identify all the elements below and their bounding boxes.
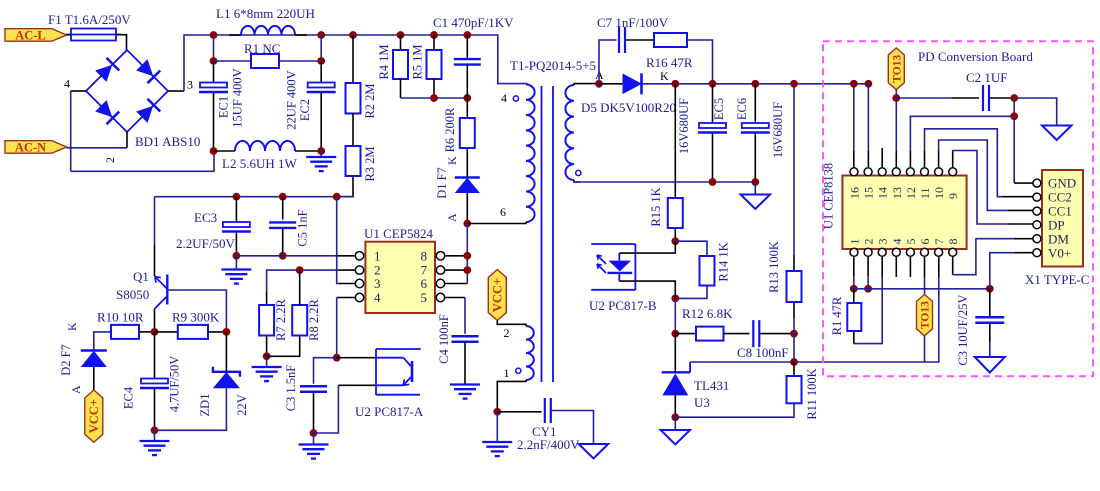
- wire TO13 bottom stub: [924, 336, 926, 362]
- svg-text:TL431: TL431: [694, 378, 729, 393]
- svg-text:R3 2M: R3 2M: [363, 146, 377, 181]
- svg-text:4: 4: [374, 290, 381, 305]
- wire R5 bottom stub: [433, 79, 435, 98]
- svg-text:K: K: [65, 322, 79, 331]
- ground primary at R7 R8: [252, 366, 282, 368]
- svg-text:R6 200R: R6 200R: [443, 107, 457, 152]
- svg-text:AC-N: AC-N: [15, 140, 46, 154]
- junction EC3 ground pin1 rail: [233, 252, 241, 260]
- junction R15 R14 LED: [671, 237, 679, 245]
- svg-text:C8 100nF: C8 100nF: [737, 345, 789, 360]
- wire pin2 to bus: [867, 276, 869, 289]
- wire R4 R5 bottom join: [401, 97, 468, 99]
- svg-text:D1 F7: D1 F7: [435, 167, 449, 199]
- wire bridge pin3 stub: [168, 90, 184, 92]
- pin 4 of U1 CEP5824: [355, 293, 363, 301]
- wire D2 anode to VCC flag: [93, 367, 95, 391]
- svg-text:R5 1M: R5 1M: [411, 44, 425, 79]
- net flag AC-N: [5, 141, 67, 154]
- controller U1 CEP8138: [842, 176, 966, 250]
- svg-text:U2 PC817-B: U2 PC817-B: [589, 298, 657, 313]
- wire L1 right pin: [295, 34, 307, 36]
- junction gnd riser pin12 branch: [1010, 112, 1018, 120]
- svg-text:AC-L: AC-L: [15, 28, 46, 42]
- junction rail R15: [671, 80, 679, 88]
- wire R14 bottom: [675, 286, 707, 299]
- net flag VCC+ aux: [488, 270, 506, 321]
- svg-text:R4 1M: R4 1M: [377, 44, 391, 79]
- wire pin11 stub: [924, 151, 926, 168]
- capacitor EC6 16V680UF: [742, 123, 769, 128]
- resistor R3 2M: [346, 146, 361, 176]
- wire bridge pin2 stub: [126, 132, 128, 148]
- svg-text:3: 3: [374, 276, 381, 291]
- wire C1 bottom pin: [466, 65, 468, 98]
- pin 10 of U1 CEP8138: [935, 168, 943, 176]
- junction rail R5: [430, 31, 438, 39]
- junction pin4 C3 opto: [333, 354, 341, 362]
- resistor R6 200R: [460, 118, 475, 148]
- wire C1 top pin: [466, 35, 468, 59]
- junction rail EC6: [751, 80, 759, 88]
- wire R2 to R3: [352, 114, 354, 147]
- svg-text:A: A: [445, 213, 459, 222]
- pin 3 of U1 CEP8138: [878, 248, 886, 256]
- svg-text:2: 2: [862, 239, 876, 245]
- wire EC2 pin top: [320, 61, 322, 83]
- wire C3 top: [314, 358, 337, 384]
- pin 4 of U1 CEP8138: [892, 248, 900, 256]
- svg-text:4: 4: [501, 91, 507, 105]
- junction C2 gnd riser: [1010, 94, 1018, 102]
- junction pin2 R8: [296, 266, 304, 274]
- wire snubber riser: [599, 40, 617, 84]
- svg-text:22UF 400V: 22UF 400V: [285, 70, 299, 129]
- junction EC5 ground rail: [709, 178, 717, 186]
- svg-text:EC3: EC3: [194, 210, 217, 225]
- wire pin2 stub: [339, 269, 355, 271]
- wire R3 bottom stub: [337, 176, 353, 197]
- ground secondary at CY1: [579, 444, 609, 459]
- wire EC1 pin top: [213, 61, 215, 83]
- resistor R2 2M: [346, 83, 361, 114]
- svg-text:L2 5.6UH 1W: L2 5.6UH 1W: [222, 156, 297, 171]
- ground PD at C2: [1042, 126, 1072, 141]
- wire pin14 stub: [881, 148, 883, 168]
- pin 7 of U1 CEP8138: [935, 248, 943, 256]
- ground PD at C3: [975, 357, 1005, 373]
- ground primary at C3: [299, 443, 329, 445]
- svg-text:4: 4: [64, 77, 70, 91]
- junction snubber C1 R6: [463, 94, 471, 102]
- svg-text:3: 3: [876, 239, 890, 245]
- svg-text:TO13: TO13: [920, 301, 932, 329]
- wire R1 right: [279, 60, 321, 62]
- junction R12 TL431: [671, 330, 679, 338]
- wire EC3 bottom pin: [235, 232, 237, 256]
- junction R1 EC2: [317, 57, 325, 65]
- resistor R9 300K: [178, 325, 208, 339]
- pin 15 of U1 CEP8138: [864, 168, 872, 176]
- wire pin1 ground rail: [236, 255, 336, 257]
- pin 12 of U1 CEP8138: [906, 168, 914, 176]
- svg-text:F1 T1.6A/250V: F1 T1.6A/250V: [48, 12, 131, 27]
- pin V0+ of X1: [1033, 249, 1041, 257]
- wire R12 to C8: [724, 333, 750, 335]
- junction rail EC5: [709, 80, 717, 88]
- resistor R8 2.2R: [292, 305, 307, 336]
- svg-text:X1 TYPE-C: X1 TYPE-C: [1025, 272, 1089, 287]
- wire pin8 to DM: [953, 239, 1014, 275]
- wire R1 left: [214, 60, 252, 62]
- junction L2 EC2 ground: [317, 147, 325, 155]
- pin DM of X1: [1033, 235, 1041, 243]
- svg-text:R9 300K: R9 300K: [172, 310, 220, 325]
- junction R14 LED cathode: [671, 295, 679, 303]
- junction EC1 R1: [210, 57, 218, 65]
- zener ZD1 22V: [213, 367, 240, 377]
- wire C3 bottom pin: [313, 392, 315, 433]
- wire pin7 stub: [445, 269, 467, 271]
- wire EC6 top pin: [754, 84, 756, 123]
- wire EC2 top stub: [320, 35, 322, 61]
- wire AC-N to bridge pin2: [67, 147, 128, 149]
- inductor L2 5.6UH 1W: [235, 141, 295, 151]
- wire R11 top stub: [793, 362, 795, 376]
- wire C2 to ground corner: [1010, 98, 1057, 126]
- svg-text:22V: 22V: [235, 394, 249, 416]
- pin 6 of U1 CEP8138: [921, 248, 929, 256]
- svg-text:4.7UF/50V: 4.7UF/50V: [168, 356, 182, 413]
- wire C3 PD bottom pin: [989, 323, 991, 342]
- svg-text:8: 8: [946, 239, 960, 245]
- bridge diode bottom-left: [94, 99, 119, 124]
- svg-text:D2 F7: D2 F7: [59, 344, 73, 376]
- svg-text:EC5: EC5: [712, 98, 726, 120]
- capacitor C3 10UF/25V: [975, 316, 1004, 318]
- svg-text:5: 5: [421, 290, 428, 305]
- capacitor C3 1.5nF: [300, 385, 327, 387]
- svg-text:12: 12: [904, 187, 918, 199]
- wire R5 top stub: [433, 35, 435, 50]
- optocoupler U2 PC817-B: [591, 243, 635, 245]
- svg-text:10: 10: [932, 187, 946, 199]
- wire output rail: [642, 83, 854, 85]
- wire pin3 riser: [854, 277, 882, 344]
- wire R7R8 ground stub: [266, 356, 268, 367]
- junction L2 EC1 bottom: [210, 147, 218, 155]
- wire secondary ground rail: [574, 181, 755, 183]
- wire R16 to rail: [687, 40, 713, 84]
- wire R8 top stub: [299, 270, 301, 305]
- junction rail R13: [790, 80, 798, 88]
- wire bridge pin4 stub: [71, 90, 86, 92]
- wire AC-L to fuse: [67, 34, 72, 36]
- wire pin4 to opto: [336, 298, 338, 358]
- pin 16 of U1 CEP8138: [850, 168, 858, 176]
- ground primary at aux winding: [482, 441, 512, 443]
- svg-text:4: 4: [890, 239, 904, 245]
- wire pin16 stub: [853, 151, 855, 168]
- wire C5 top pin: [282, 197, 284, 220]
- resistor R15 1K: [668, 198, 683, 228]
- resistor R10 10R: [111, 325, 139, 339]
- net flag TO13 top: [888, 48, 904, 90]
- wire rail into board: [854, 84, 869, 151]
- wire TO13 to pin13: [895, 90, 897, 151]
- bridge rectifier BD1 ABS10: [86, 50, 168, 132]
- wire T1 pin6: [467, 222, 526, 224]
- pin CC2 of X1: [1033, 193, 1041, 201]
- wire rail to R15: [674, 84, 676, 198]
- svg-text:6: 6: [421, 276, 428, 291]
- svg-text:C2 1UF: C2 1UF: [966, 70, 1008, 85]
- junction rail R2: [349, 31, 357, 39]
- wire pin15 stub: [867, 151, 869, 168]
- svg-text:U3: U3: [694, 395, 710, 410]
- wire DC plus rail top: [214, 35, 528, 84]
- pin 5 of U1 CEP8138: [906, 248, 914, 256]
- svg-text:7: 7: [932, 239, 946, 245]
- resistor R5 1M: [427, 50, 442, 79]
- pin 11 of U1 CEP8138: [921, 168, 929, 176]
- wire pin10 to CC1: [939, 140, 1008, 210]
- wire EC5 top pin: [712, 84, 714, 123]
- wire pin13 stub: [895, 151, 897, 168]
- wire pin2 stub: [867, 257, 869, 277]
- wire Q1 base: [169, 290, 227, 332]
- wire LED cathode to R12 node: [674, 298, 676, 333]
- capacitor C5 1nF: [269, 221, 296, 223]
- svg-text:3: 3: [187, 78, 193, 92]
- ground secondary at EC6: [741, 195, 771, 210]
- resistor R7 2.2R: [259, 305, 274, 336]
- svg-text:U1 CEP8138: U1 CEP8138: [822, 163, 836, 229]
- svg-text:R16 47R: R16 47R: [646, 55, 693, 70]
- wire rail to R13: [793, 84, 795, 255]
- junction aux rail C5: [279, 193, 287, 201]
- wire pin12 net: [910, 116, 1014, 151]
- wire C2 left pin: [952, 97, 979, 99]
- junction D1 transformer pin6: [463, 220, 471, 228]
- capacitor C8 100nF: [752, 320, 754, 347]
- resistor R1 47R: [847, 303, 861, 331]
- ground secondary at TL431: [661, 430, 691, 445]
- svg-text:GND: GND: [1048, 176, 1076, 191]
- junction bus pin2: [864, 285, 872, 293]
- wire R15 bottom: [674, 228, 676, 241]
- bridge diode top-right: [135, 58, 160, 83]
- svg-text:16: 16: [848, 187, 862, 199]
- junction R13 R11 C8: [790, 330, 798, 338]
- svg-text:DP: DP: [1048, 217, 1065, 232]
- pin 9 of U1 CEP8138: [949, 168, 957, 176]
- svg-text:R7 2.2R: R7 2.2R: [274, 299, 288, 341]
- svg-text:D5 DK5V100R20: D5 DK5V100R20: [581, 100, 676, 115]
- wire pin9 to DP: [953, 151, 1008, 225]
- svg-text:2: 2: [504, 326, 510, 340]
- bridge diode bottom-right: [135, 99, 160, 124]
- junction Q1 collector R10 R9: [151, 328, 159, 336]
- capacitor EC2 22UF 400V: [308, 83, 335, 88]
- wire bridge pin4 to bottom loop: [70, 91, 72, 171]
- svg-text:14: 14: [876, 187, 890, 199]
- resistor R4 1M: [393, 50, 408, 79]
- wire C5 bottom pin: [282, 228, 284, 256]
- wire pin6 stub: [445, 283, 467, 285]
- pin DP of X1: [1033, 221, 1041, 229]
- junction R9 base ZD1: [223, 328, 231, 336]
- svg-text:U2 PC817-A: U2 PC817-A: [355, 404, 424, 419]
- svg-text:R10 10R: R10 10R: [97, 310, 144, 325]
- junction bus pin1: [850, 285, 858, 293]
- wire gnd riser to X1 GND: [1013, 98, 1015, 183]
- svg-text:VCC+: VCC+: [87, 399, 101, 433]
- shunt regulator U3 TL431: [662, 371, 690, 373]
- transistor Q1 S8050: [154, 245, 156, 276]
- wire Q1 collector: [154, 308, 156, 332]
- wire TO13 net to C2: [896, 97, 952, 99]
- junction rail R4: [397, 31, 405, 39]
- pin 1 of U1 CEP5824: [355, 252, 363, 260]
- wire T1 secondary bottom pin: [574, 180, 580, 182]
- wire pin7 stub: [938, 257, 940, 278]
- pin 5 of U1 CEP5824: [436, 293, 444, 301]
- svg-text:R1 47R: R1 47R: [830, 296, 844, 335]
- svg-text:R14 1K: R14 1K: [717, 242, 731, 281]
- wire TL431 ref: [690, 277, 939, 362]
- wire C8 to R13 node: [760, 333, 794, 335]
- svg-text:C4 100nF: C4 100nF: [437, 314, 451, 364]
- junction secondary D5 anode: [595, 80, 603, 88]
- wire DM pin wire: [1014, 238, 1033, 240]
- svg-text:EC1: EC1: [217, 96, 231, 118]
- wire R6 to D1: [466, 148, 468, 177]
- svg-text:T1-PQ2014-5+5: T1-PQ2014-5+5: [510, 58, 596, 73]
- junction rail pin16: [850, 80, 858, 88]
- PD conversion board outline: [823, 41, 1093, 376]
- wire pin16 riser: [853, 84, 855, 151]
- bridge diode top-left: [94, 58, 119, 83]
- phase dot secondary: [576, 170, 581, 175]
- svg-text:A: A: [69, 385, 83, 394]
- capacitor C4 100nF: [452, 335, 479, 337]
- wire aux ground stub: [496, 412, 498, 442]
- diode D1 F7: [455, 176, 480, 179]
- wire pin1 to bus: [853, 276, 855, 289]
- pin CC1 of X1: [1033, 207, 1041, 215]
- diode D5 DK5V100R20: [623, 74, 641, 93]
- inductor L1: [241, 26, 295, 35]
- wire pin5 stub: [445, 297, 465, 299]
- wire GND pin wire: [1014, 182, 1033, 184]
- wire L2 right pin: [295, 150, 321, 152]
- wire pin5 to C4: [464, 298, 466, 334]
- svg-text:C3 10UF/25V: C3 10UF/25V: [956, 294, 970, 365]
- wire EC6 bottom pin: [754, 133, 756, 182]
- wire pin8 stub: [445, 255, 467, 257]
- svg-text:15UF 400V: 15UF 400V: [231, 68, 245, 127]
- wire C3 ground stub: [313, 433, 315, 445]
- junction TL431 anode ground: [671, 413, 679, 421]
- controller U1 CEP5824: [365, 242, 435, 313]
- wire bridge pin3 riser to DC plus rail: [184, 35, 214, 91]
- wire R9 left stub: [155, 331, 178, 333]
- pin 2 of U1 CEP5824: [355, 266, 363, 274]
- net flag TO13 bottom: [917, 294, 933, 335]
- wire T1 secondary top pin: [574, 84, 599, 85]
- svg-text:U1 CEP5824: U1 CEP5824: [364, 226, 433, 241]
- wire pin3 stub: [881, 257, 883, 278]
- phase dot primary: [513, 96, 518, 101]
- diode D2 F7: [81, 349, 107, 352]
- capacitor C1 470pF/1KV: [454, 58, 481, 60]
- junction C3 opto emitter ground: [310, 429, 318, 437]
- ground primary at EC4: [140, 440, 170, 442]
- wire DP pin wire: [1008, 223, 1033, 225]
- phase dot aux: [516, 368, 521, 373]
- svg-text:11: 11: [918, 187, 932, 199]
- resistor R1 NC: [251, 54, 279, 68]
- wire R9 right stub: [208, 331, 226, 333]
- pin 2 of U1 CEP8138: [864, 248, 872, 256]
- junction SW pin8: [463, 252, 471, 260]
- wire aux pin2: [497, 321, 526, 327]
- wire EC1 top stub: [213, 35, 215, 61]
- wire EC2 ground stub: [320, 151, 322, 157]
- wire opto emitter pin: [338, 384, 376, 386]
- wire R2 top stub: [352, 35, 354, 83]
- wire to R14 top: [675, 241, 707, 256]
- capacitor EC4 4.7UF/50V: [141, 379, 168, 384]
- wire R7 top stub: [266, 292, 268, 306]
- svg-text:16V680UF: 16V680UF: [771, 102, 785, 158]
- wire EC4 ground stub: [154, 430, 156, 441]
- svg-text:ZD1: ZD1: [198, 394, 212, 417]
- svg-text:C5 1nF: C5 1nF: [296, 209, 310, 246]
- wire pin6 stub: [924, 257, 926, 278]
- wire R1 bottom stub: [853, 331, 855, 344]
- capacitor C2 1UF: [982, 85, 984, 111]
- wire V0+ riser: [990, 253, 1015, 289]
- svg-text:2.2UF/50V: 2.2UF/50V: [176, 236, 235, 251]
- svg-text:C7 1nF/100V: C7 1nF/100V: [597, 15, 669, 30]
- wire pin11 to CC2: [925, 129, 1004, 197]
- wire L2 left pin: [214, 150, 236, 152]
- transformer T1 primary winding: [526, 85, 535, 223]
- wire R4 top stub: [400, 35, 402, 50]
- wire pin2 net: [267, 270, 339, 291]
- wire divider node: [793, 334, 795, 362]
- svg-text:1: 1: [374, 248, 381, 263]
- wire EC4 top pin: [154, 332, 156, 379]
- junction rail pin15 corner: [865, 80, 873, 88]
- svg-text:VCC+: VCC+: [491, 278, 505, 312]
- svg-text:L1 6*8mm 220UH: L1 6*8mm 220UH: [216, 6, 315, 21]
- wire EC6 ground stub: [754, 182, 756, 195]
- junction R7 R8 ground: [263, 352, 271, 360]
- wire opto collector pin: [337, 357, 376, 359]
- junction EC6 ground rail: [751, 178, 759, 186]
- wire pin6 to TO13 flag: [924, 277, 926, 294]
- pin 3 of U1 CEP5824: [355, 279, 363, 287]
- wire L1 left pin: [229, 34, 241, 36]
- wire aux pin1: [497, 380, 526, 412]
- wire EC3 ground stub: [235, 256, 237, 270]
- svg-text:TO13: TO13: [892, 55, 904, 83]
- wire pin1 stub: [337, 255, 356, 257]
- wire R1 top stub: [853, 289, 855, 303]
